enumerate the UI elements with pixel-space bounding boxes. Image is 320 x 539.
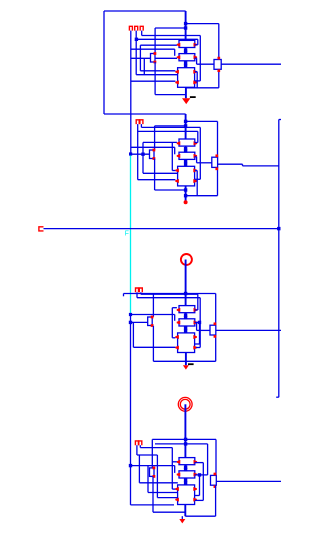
svg-text:F: F: [125, 231, 129, 238]
